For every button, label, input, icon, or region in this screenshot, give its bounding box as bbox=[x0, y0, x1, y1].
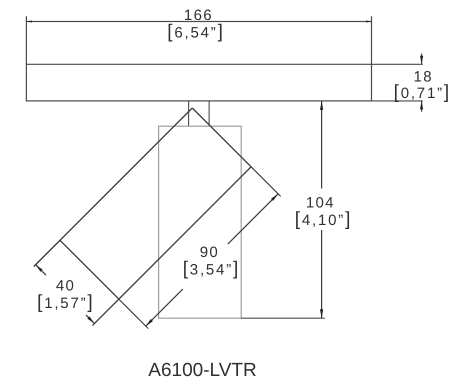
svg-text:104: 104 bbox=[306, 194, 335, 211]
dimension 90 extension line lower (from Bc) bbox=[119, 299, 149, 329]
back long edge T to L extended to 40-dim bbox=[34, 108, 193, 267]
dimension 40 upper arrowhead bbox=[36, 265, 43, 272]
short top edge T to R bbox=[192, 108, 251, 167]
dimension 166 line (top edge doubles) arrowheads bbox=[26, 21, 371, 23]
dimension 18 upper arrowhead bbox=[420, 56, 423, 65]
track body outline bbox=[26, 22, 371, 101]
dimension 90 line lower segment bbox=[146, 289, 183, 326]
dimension 104 bottom extension line bbox=[241, 317, 325, 319]
svg-text:[3,54”]: [3,54”] bbox=[183, 259, 240, 280]
dimension 104 lower arrowhead bbox=[320, 309, 323, 318]
stem right line bbox=[208, 101, 210, 126]
dimension 40 lower arrowhead bbox=[87, 316, 94, 323]
svg-text:A6100-LVTR: A6100-LVTR bbox=[148, 360, 256, 381]
svg-text:[1,57”]: [1,57”] bbox=[37, 292, 94, 313]
svg-text:90: 90 bbox=[200, 244, 219, 261]
front long edge from 40-dim extension up to R bbox=[93, 167, 252, 326]
dimension 18 extension line upper bbox=[372, 63, 423, 65]
dimension 90 extension line upper (from R) bbox=[251, 167, 281, 197]
svg-text:[6,54”]: [6,54”] bbox=[167, 22, 224, 43]
dimension 40 line lower segment bbox=[86, 315, 94, 323]
svg-text:[0,71”]: [0,71”] bbox=[394, 82, 451, 103]
dimension 104 line lower segment bbox=[321, 230, 323, 318]
dimension 90 line upper segment bbox=[228, 194, 278, 244]
svg-text:18: 18 bbox=[414, 69, 433, 86]
dimension 18 lower arrowhead bbox=[420, 101, 423, 110]
stem left line bbox=[188, 101, 190, 126]
dimension 104 line upper segment bbox=[321, 101, 323, 189]
dimension 104 upper arrowhead bbox=[320, 101, 323, 110]
svg-text:40: 40 bbox=[56, 277, 75, 294]
svg-text:[4,10”]: [4,10”] bbox=[295, 209, 352, 230]
extension stub above right track corner bbox=[371, 16, 373, 21]
dimension 90 upper arrowhead bbox=[271, 194, 278, 201]
dimension 40 extension line (beyond L) bbox=[34, 240, 60, 266]
dimension 40 line upper segment bbox=[36, 265, 46, 275]
extension stub above left track corner bbox=[25, 16, 27, 21]
rotated fixture body (45 deg) bbox=[34, 108, 251, 325]
svg-text:166: 166 bbox=[184, 7, 213, 24]
phantom vertical fixture body (gray) bbox=[159, 126, 242, 318]
track middle rib line bbox=[26, 63, 371, 65]
short bottom edge L to Bc bbox=[60, 240, 119, 299]
dimension 18 upper arrow tail bbox=[421, 54, 423, 65]
dimension 18 extension line lower bbox=[372, 100, 423, 102]
dimension 18 lower arrow tail bbox=[421, 101, 423, 112]
dimension 90 lower arrowhead bbox=[146, 319, 153, 326]
